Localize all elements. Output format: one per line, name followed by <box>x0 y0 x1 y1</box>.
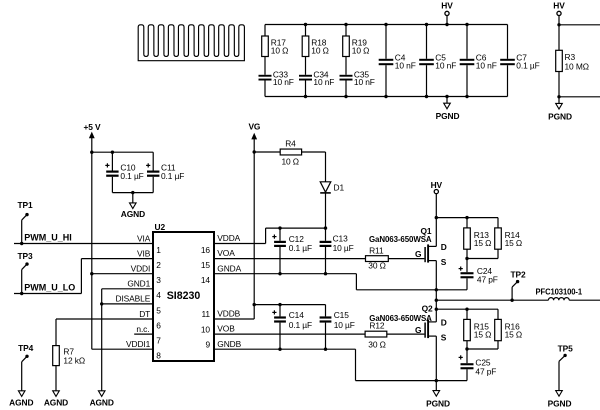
resistor R11 <box>366 246 389 271</box>
junction VG/R4 <box>253 150 256 153</box>
svg-text:0.1 µF: 0.1 µF <box>161 171 184 181</box>
pin label VDDB <box>217 309 240 319</box>
wire phase rail <box>436 299 548 302</box>
svg-text:AGND: AGND <box>121 209 145 219</box>
node PWM_U_HI <box>14 232 153 243</box>
pin label VDDI <box>131 264 151 274</box>
resistor R19 <box>343 25 370 75</box>
svg-text:14: 14 <box>201 275 211 285</box>
resistor R3 <box>556 50 589 71</box>
op-amp U2 body (SI8230) <box>153 222 214 361</box>
svg-text:DISABLE: DISABLE <box>116 294 151 304</box>
wire HV stub to edge <box>557 23 600 50</box>
pin label GNDA <box>217 263 241 273</box>
svg-text:10 nF: 10 nF <box>313 77 334 87</box>
junction <box>425 95 428 98</box>
node PWM_U_LO <box>14 259 153 294</box>
resistor R18 <box>302 25 329 75</box>
pin 11 <box>202 309 211 319</box>
wire C10/C11 bottom rail <box>112 191 153 194</box>
svg-text:VG: VG <box>248 122 260 132</box>
wire top HV rail <box>265 24 508 26</box>
pin label GNDB <box>217 339 241 349</box>
wire VDDA step <box>214 228 326 243</box>
testpoint TP3 <box>17 251 33 295</box>
svg-text:30 Ω: 30 Ω <box>368 339 386 349</box>
svg-text:Q2: Q2 <box>422 303 433 313</box>
ground PGND (TP5) <box>548 391 572 409</box>
junction VG/VDDB rail <box>253 303 256 306</box>
svg-text:10 MΩ: 10 MΩ <box>565 62 589 72</box>
svg-text:VIA: VIA <box>137 233 151 243</box>
svg-text:15 Ω: 15 Ω <box>505 330 523 340</box>
svg-text:16: 16 <box>201 245 211 255</box>
svg-text:10 nF: 10 nF <box>395 60 416 70</box>
wire PGND stub to edge <box>557 72 600 99</box>
transistor Q2 <box>369 303 446 342</box>
capacitor C33 <box>259 69 294 96</box>
svg-text:GND1: GND1 <box>127 279 150 289</box>
svg-text:10 Ω: 10 Ω <box>281 156 299 166</box>
junction VDDA/C12 <box>278 226 281 229</box>
wire VOA <box>214 258 366 260</box>
wire DT <box>56 319 153 346</box>
pin 5 <box>156 305 161 315</box>
capacitor C14 <box>272 305 312 351</box>
svg-text:TP1: TP1 <box>17 200 33 210</box>
junction source A <box>435 288 438 291</box>
svg-text:10 µF: 10 µF <box>333 243 354 253</box>
svg-text:10 Ω: 10 Ω <box>271 45 289 55</box>
pin 8 <box>156 351 161 361</box>
junction <box>304 95 307 98</box>
svg-text:PGND: PGND <box>426 399 450 409</box>
ground PGND (R3) <box>548 97 572 122</box>
svg-text:1: 1 <box>156 245 161 255</box>
svg-text:10: 10 <box>201 324 211 334</box>
svg-text:0.1 µF: 0.1 µF <box>289 320 312 330</box>
svg-text:10 nF: 10 nF <box>476 60 497 70</box>
svg-text:47 pF: 47 pF <box>477 274 498 284</box>
svg-text:G: G <box>415 249 421 259</box>
svg-text:10 nF: 10 nF <box>354 77 375 87</box>
svg-text:TP4: TP4 <box>18 343 34 353</box>
svg-text:0.1 µF: 0.1 µF <box>289 243 312 253</box>
wire Q2 source <box>435 336 438 382</box>
pin label VOB <box>217 324 235 334</box>
svg-text:47 pF: 47 pF <box>475 366 496 376</box>
svg-text:R11: R11 <box>369 246 384 256</box>
wire R15/R16 bottom <box>465 341 498 351</box>
svg-text:GNDB: GNDB <box>217 339 241 349</box>
capacitor C12 <box>272 228 312 275</box>
transistor Q1 <box>369 226 447 267</box>
pin 14 <box>201 275 211 285</box>
ground PGND (cap bank) <box>436 97 460 122</box>
svg-text:R3: R3 <box>565 52 576 62</box>
junction <box>445 23 448 26</box>
wire VDDB <box>214 303 326 319</box>
svg-text:30 Ω: 30 Ω <box>368 260 386 270</box>
resistor R13 <box>464 228 492 249</box>
svg-text:VDDB: VDDB <box>217 309 240 319</box>
junction +5V/VDDI <box>90 272 93 275</box>
svg-text:VDDI: VDDI <box>131 264 151 274</box>
wire C10/C11 top rail <box>92 151 153 154</box>
svg-text:AGND: AGND <box>90 398 114 408</box>
svg-text:PWM_U_LO: PWM_U_LO <box>24 282 75 292</box>
resistor R16 <box>495 319 522 340</box>
capacitor C7 <box>500 25 539 97</box>
wire drain rail A <box>436 216 498 228</box>
svg-text:15 Ω: 15 Ω <box>505 238 523 248</box>
junction <box>344 23 347 26</box>
pin label VOA <box>217 248 235 258</box>
svg-text:HV: HV <box>441 0 453 10</box>
svg-text:2: 2 <box>156 260 161 270</box>
capacitor C10 <box>105 152 143 192</box>
svg-text:PFC103100-1: PFC103100-1 <box>536 286 583 296</box>
svg-text:TP3: TP3 <box>17 251 33 261</box>
pin 2 <box>156 260 161 270</box>
power +5 V <box>83 122 101 349</box>
testpoint TP5 <box>558 343 574 390</box>
junction <box>384 23 387 26</box>
svg-text:10 nF: 10 nF <box>435 60 456 70</box>
svg-text:TP2: TP2 <box>510 270 526 280</box>
junction <box>344 95 347 98</box>
svg-text:R4: R4 <box>285 138 296 148</box>
pin 4 <box>156 290 161 300</box>
wire R13/R14 bottom <box>465 249 498 260</box>
pin label VIA <box>137 233 151 243</box>
wire VDDI to +5V <box>92 273 153 275</box>
svg-text:12 kΩ: 12 kΩ <box>63 355 85 365</box>
svg-text:D: D <box>441 242 447 252</box>
svg-text:15 Ω: 15 Ω <box>474 238 492 248</box>
wire VDDI1 to +5V <box>92 348 153 350</box>
svg-text:PGND: PGND <box>436 111 460 121</box>
svg-text:AGND: AGND <box>44 398 68 408</box>
junction <box>304 23 307 26</box>
ground AGND (R7) <box>44 391 68 408</box>
junction <box>445 95 448 98</box>
svg-text:PWM_U_HI: PWM_U_HI <box>24 232 72 242</box>
wire GNDA route <box>214 274 467 290</box>
testpoint TP4 <box>18 343 34 391</box>
svg-text:15: 15 <box>201 260 211 270</box>
junction <box>465 23 468 26</box>
ground AGND (C10/C11) <box>121 193 145 219</box>
svg-text:DT: DT <box>139 309 150 319</box>
ground AGND (TP4) <box>9 391 33 408</box>
svg-text:n.c.: n.c. <box>136 324 149 334</box>
pin 10 <box>201 324 211 334</box>
svg-text:AGND: AGND <box>9 398 33 408</box>
svg-text:10 nF: 10 nF <box>273 77 294 87</box>
wire GND1 <box>100 289 153 391</box>
wire Q1 source <box>435 261 437 301</box>
svg-text:C15: C15 <box>334 310 350 320</box>
svg-text:HV: HV <box>431 180 443 190</box>
wire DISABLE <box>102 303 153 305</box>
pin 16 <box>201 245 211 255</box>
svg-text:4: 4 <box>156 290 161 300</box>
wire drain rail B <box>436 308 498 320</box>
svg-text:HV: HV <box>553 0 565 10</box>
svg-text:TP5: TP5 <box>558 343 574 353</box>
svg-text:VDDA: VDDA <box>217 233 240 243</box>
capacitor C24 <box>459 259 498 290</box>
svg-text:VDDI1: VDDI1 <box>126 339 151 349</box>
testpoint TP2 <box>510 270 526 301</box>
resistor R14 <box>495 228 522 249</box>
svg-text:PGND: PGND <box>548 111 572 121</box>
capacitor C11 <box>146 152 184 192</box>
junction <box>425 23 428 26</box>
resistor R4 <box>254 138 325 166</box>
svg-text:C14: C14 <box>289 310 305 320</box>
svg-text:5: 5 <box>156 305 161 315</box>
pin label VIB <box>137 248 151 258</box>
svg-text:10 Ω: 10 Ω <box>311 45 329 55</box>
svg-text:0.1 µF: 0.1 µF <box>120 171 143 181</box>
power HV (R3) <box>553 0 565 25</box>
svg-text:PGND: PGND <box>548 398 572 408</box>
junction <box>465 95 468 98</box>
wire gate Q2 <box>387 333 425 335</box>
power VG <box>248 122 260 319</box>
capacitor C13 <box>320 228 354 275</box>
pin 9 <box>205 339 210 349</box>
pin label DISABLE <box>116 294 151 304</box>
svg-text:3: 3 <box>156 275 161 285</box>
resistor R7 <box>53 346 85 391</box>
junction HV/R13 rail <box>435 216 438 219</box>
svg-text:6: 6 <box>156 320 161 330</box>
power HV (Q1) <box>431 180 443 246</box>
svg-text:S: S <box>441 333 447 343</box>
svg-text:VOB: VOB <box>217 324 235 334</box>
capacitor C5 <box>419 25 456 97</box>
wire Q2 drain <box>435 300 438 322</box>
capacitor C15 <box>320 305 355 351</box>
node phase / junction <box>435 299 438 302</box>
pin 1 <box>156 245 161 255</box>
svg-text:D: D <box>441 318 447 328</box>
svg-text:SI8230: SI8230 <box>167 290 201 302</box>
svg-text:10 Ω: 10 Ω <box>352 45 370 55</box>
resistor R12 <box>365 321 387 350</box>
pin label VDDA <box>217 233 240 243</box>
svg-text:D1: D1 <box>334 182 345 192</box>
svg-text:8: 8 <box>156 351 161 361</box>
svg-text:G: G <box>415 325 421 335</box>
pin 15 <box>201 260 211 270</box>
wire bottom PGND rail <box>265 96 508 98</box>
svg-text:U2: U2 <box>155 222 166 232</box>
inductor PFC103100-1 <box>536 286 600 300</box>
resistor R17 <box>262 25 289 75</box>
svg-text:GNDA: GNDA <box>217 263 241 273</box>
testpoint TP1 <box>17 200 33 245</box>
svg-text:S: S <box>441 257 447 267</box>
resistor R15 <box>464 319 492 340</box>
svg-text:GaN063-650WSA: GaN063-650WSA <box>369 234 432 244</box>
svg-text:+5 V: +5 V <box>83 122 101 132</box>
svg-text:VIB: VIB <box>137 248 151 258</box>
capacitor C35 <box>340 69 375 96</box>
pin 7 <box>156 336 161 346</box>
wire VOB <box>214 333 365 335</box>
wire gate Q1 <box>388 258 424 260</box>
svg-text:9: 9 <box>205 339 210 349</box>
junction +5V/C10 rail <box>90 151 93 154</box>
capacitor C25 <box>459 349 497 381</box>
svg-text:0.1 µF: 0.1 µF <box>516 60 539 70</box>
pin 3 <box>156 275 161 285</box>
junction VDDA/D1/C13 <box>324 226 327 229</box>
svg-text:GaN063-650WSA: GaN063-650WSA <box>369 313 432 323</box>
svg-text:7: 7 <box>156 336 161 346</box>
svg-text:VOA: VOA <box>217 248 235 258</box>
ground AGND (GND1/DISABLE) <box>90 391 114 408</box>
pin label VDDI1 <box>126 339 151 349</box>
junction <box>384 95 387 98</box>
diode D1 <box>320 152 344 228</box>
capacitor C4 <box>379 25 416 97</box>
pin label GND1 <box>127 279 150 289</box>
pin label DT <box>139 309 150 319</box>
ground PGND (Q2) <box>426 381 450 409</box>
pin label n.c. with stub <box>134 324 153 334</box>
svg-text:15 Ω: 15 Ω <box>474 330 492 340</box>
svg-text:11: 11 <box>202 309 211 319</box>
heatsink <box>138 25 244 61</box>
pin 6 <box>156 320 161 330</box>
power HV (cap bank) <box>441 0 453 24</box>
svg-text:10 µF: 10 µF <box>334 320 355 330</box>
capacitor C34 <box>299 69 334 96</box>
wire GNDB route <box>214 349 467 380</box>
capacitor C6 <box>460 25 497 97</box>
